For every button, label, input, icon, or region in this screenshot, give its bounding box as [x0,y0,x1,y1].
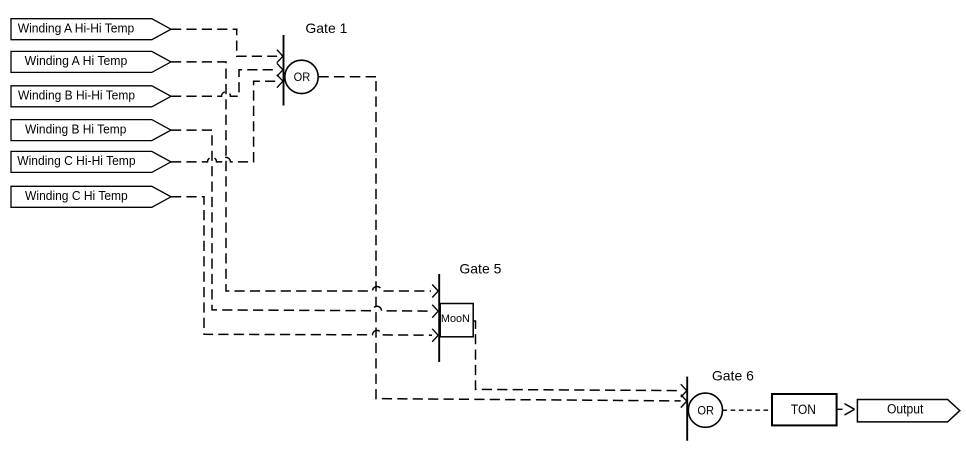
gate 1 input bar [283,35,285,106]
input tag T3 Winding B Hi-Hi Temp [11,86,171,107]
wire W5 T5 to Gate1 input 3 (jumps over x212 and x226) [171,75,283,162]
wire W7 Gate1 output to Gate6 input 2 [318,77,687,408]
wire W10 TON to Output tag [838,404,855,415]
op gate 6 OR circle [688,393,722,427]
wire W2 T2 to Gate5 input 1 (jump over x377) [171,62,438,298]
gate 5 input bar [438,274,440,362]
svg-text:Winding A Hi Temp: Winding A Hi Temp [25,54,128,68]
svg-text:Output: Output [887,402,924,417]
wire W4 T4 to Gate5 input 2 (jump over x377) [171,130,438,318]
svg-text:Winding C Hi Temp: Winding C Hi Temp [25,189,128,203]
svg-text:Gate 1: Gate 1 [305,20,347,36]
svg-text:Winding C Hi-Hi Temp: Winding C Hi-Hi Temp [17,154,135,168]
svg-text:Gate 5: Gate 5 [459,261,501,277]
svg-text:OR: OR [697,405,714,417]
gate 5 MooN box [440,304,473,337]
input tag T1 Winding A Hi-Hi Temp [11,19,171,40]
wire W3 T3 to Gate1 input 2 (jump over x226) [171,63,283,96]
svg-text:TON: TON [791,402,816,417]
input tag T2 Winding A Hi Temp [11,51,171,72]
svg-text:Gate 6: Gate 6 [712,367,754,383]
input tag T4 Winding B Hi Temp [11,120,171,141]
svg-text:Winding B Hi-Hi Temp: Winding B Hi-Hi Temp [18,89,135,103]
wire W8 Gate5 output to Gate6 input 1 [473,321,687,397]
svg-text:Winding B Hi Temp: Winding B Hi Temp [25,122,126,136]
wire W1 T1 to Gate1 input 1 [171,29,283,63]
input tag T6 Winding C Hi Temp [11,186,171,207]
op gate 1 OR circle [285,60,318,93]
timer TON box [772,394,837,425]
input tag T5 Winding C Hi-Hi Temp [11,151,171,172]
wire W6 T6 to Gate5 input 3 (jump over x377) [171,197,438,342]
gate 6 input bar [686,377,688,441]
svg-text:OR: OR [294,72,311,84]
svg-text:Winding A Hi-Hi Temp: Winding A Hi-Hi Temp [18,21,135,35]
wire W9 Gate6 OR to TON [723,409,771,411]
svg-text:MooN: MooN [441,313,470,325]
output tag Output [857,400,959,422]
